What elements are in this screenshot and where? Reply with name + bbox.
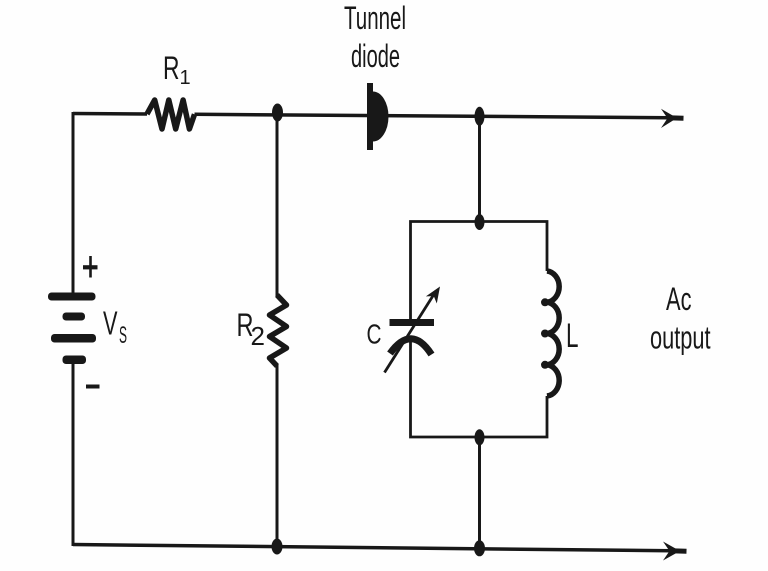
arrowhead top right — [661, 109, 677, 128]
capacitor C curved plate — [390, 339, 432, 355]
node junction dot tank top — [475, 214, 485, 230]
wire R2 branch upper — [276, 114, 279, 296]
node junction dot top at tank branch — [475, 107, 485, 126]
svg-text:diode: diode — [351, 38, 400, 74]
svg-text:Ac: Ac — [666, 281, 692, 317]
tank box lower: right-lower edge, bottom edge, left-lower edge — [411, 340, 548, 437]
arrowhead top right tip overshoot — [668, 115, 684, 121]
resistor R1 — [147, 100, 195, 129]
capacitor C top plate — [390, 319, 435, 326]
resistor R2 — [270, 295, 287, 366]
wire left vertical upper — [72, 112, 75, 294]
label R2 — [237, 307, 265, 351]
tunnel diode D1 anode half-disc — [373, 92, 389, 142]
label Tunnel diode — [344, 0, 406, 74]
svg-text:output: output — [650, 320, 711, 356]
capacitor C variable arrow shaft — [385, 291, 437, 373]
wire bottom rail — [73, 545, 671, 551]
node junction dot bottom at tank branch — [474, 540, 485, 556]
battery plus sign — [83, 256, 98, 278]
wire top rail right segment — [195, 114, 669, 117]
svg-text:Tunnel: Tunnel — [344, 0, 406, 36]
inductor L coil pinch loops — [541, 298, 549, 369]
tank box upper: left-upper edge, top edge, right-upper edge — [411, 222, 548, 320]
label R1 — [163, 50, 191, 89]
battery minus sign — [86, 385, 100, 389]
wire tank branch upper — [478, 117, 481, 222]
node junction dot bottom at R2 branch — [272, 539, 283, 555]
wire tank branch lower — [478, 437, 481, 548]
wire R2 branch lower — [276, 365, 279, 547]
arrowhead bottom right tip overshoot — [670, 548, 687, 554]
svg-text:L: L — [566, 317, 579, 355]
label Ac output — [650, 281, 711, 356]
label VS — [103, 305, 127, 350]
arrowhead bottom right — [663, 542, 680, 561]
svg-text:2: 2 — [251, 321, 265, 351]
svg-text:V: V — [103, 305, 118, 342]
svg-text:C: C — [367, 319, 382, 350]
wire top rail left segment — [73, 112, 147, 116]
capacitor C variable arrowhead — [426, 283, 446, 303]
wire left vertical lower — [72, 360, 75, 546]
inductor L coil — [547, 271, 559, 396]
svg-text:R: R — [163, 50, 180, 86]
svg-text:1: 1 — [180, 67, 191, 89]
tunnel diode D1 cathode bar — [367, 83, 373, 150]
node junction dot top at R2 branch — [272, 104, 283, 122]
svg-text:S: S — [119, 322, 127, 349]
battery VS — [48, 293, 96, 365]
node junction dot tank bottom — [475, 429, 485, 445]
